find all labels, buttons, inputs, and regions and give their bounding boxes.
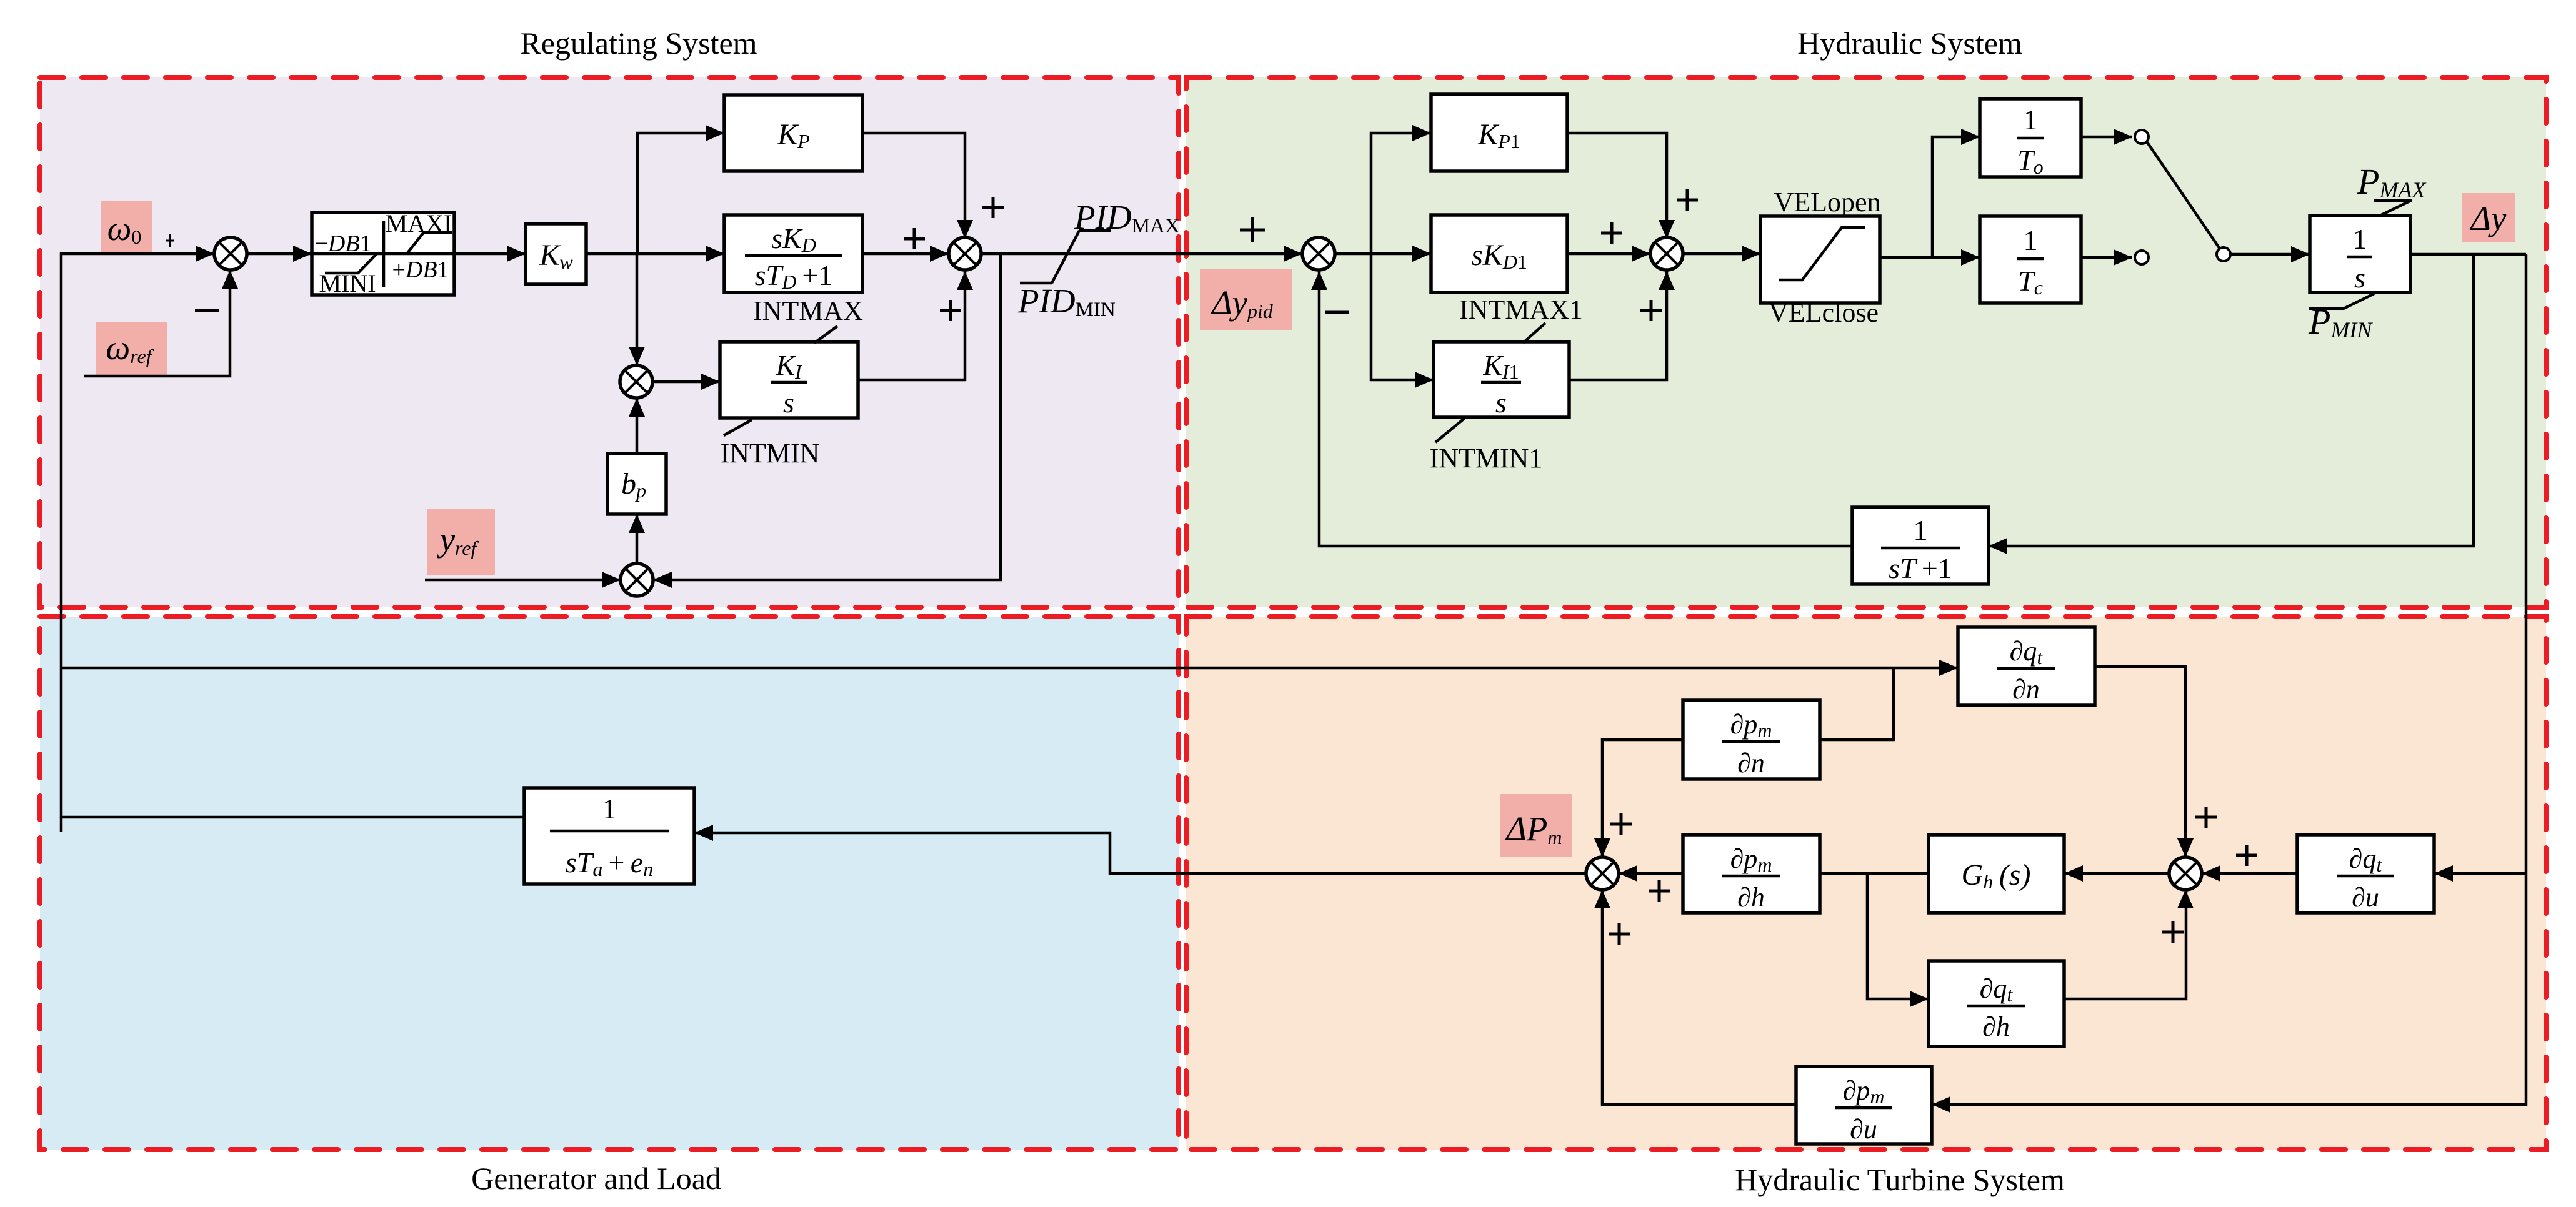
wire dy down to dpm/du <box>1932 873 2526 1113</box>
svg-text:INTMIN1: INTMIN1 <box>1430 443 1543 474</box>
summing junction S8 (dPm) <box>1586 857 1619 890</box>
svg-text:1: 1 <box>1914 514 1928 546</box>
caption Regulating System <box>520 26 757 61</box>
region Regulating System (top-left quadrant) <box>40 77 1179 607</box>
summing junction S6 <box>1650 237 1683 270</box>
block dqt/du <box>2297 835 2434 913</box>
sign + at S4 top <box>982 197 1004 218</box>
node omega_ref label <box>96 322 167 376</box>
svg-text:1: 1 <box>602 793 617 825</box>
wire S1 to deadband block <box>247 246 312 262</box>
wire Gh(s) output to dpm/dh <box>1820 872 1929 875</box>
caption Generator and Load <box>471 1161 721 1196</box>
block KI1/s <box>1434 342 1569 419</box>
sign - at S5 bottom input <box>1325 311 1349 314</box>
sign - at S1 bottom input <box>195 309 219 312</box>
sign + at S6 top <box>1677 189 1698 211</box>
label INTMAX with callout <box>753 296 863 343</box>
region Hydraulic System (top-right quadrant) <box>1186 77 2546 607</box>
switch arm <box>2147 142 2220 249</box>
sign + at S6 left <box>1601 222 1622 244</box>
svg-text:+DB1: +DB1 <box>392 257 449 283</box>
wire S4 output to S5 <box>981 246 1302 262</box>
wire deadband to Kw <box>454 246 526 262</box>
block velocity saturation <box>1760 216 1880 303</box>
wire KI to S4 bottom <box>858 271 973 380</box>
wire 1/Tc to switch contact <box>2081 249 2132 266</box>
wire dpm/dh to S8 right <box>1619 865 1683 882</box>
sign + at S8 bottom <box>1609 923 1630 945</box>
sign + at S5 left input <box>1240 217 1265 242</box>
sign + at S8 right <box>1649 880 1670 902</box>
sign + at S4 left <box>904 228 925 249</box>
svg-text:1: 1 <box>2024 104 2038 136</box>
node dPm label <box>1500 794 1572 857</box>
svg-text:Gh (s): Gh (s) <box>1962 858 2031 893</box>
wire S3 to bp <box>629 514 645 564</box>
wire dpm/du to S8 bottom <box>1594 890 1796 1105</box>
wire dy down into turbine quadrant <box>2525 254 2528 873</box>
node dy label <box>2462 193 2515 242</box>
svg-text:INTMAX1: INTMAX1 <box>1459 294 1583 325</box>
switch common circle <box>2217 247 2230 261</box>
wire S6 to saturation block <box>1683 246 1760 262</box>
svg-text:sTa + en: sTa + en <box>566 847 653 880</box>
label INTMIN with callout <box>721 420 820 469</box>
wire dqt/du to S7 right <box>2202 865 2297 882</box>
sign + at S7 bottom <box>2162 921 2184 943</box>
wire branch down to KI1 <box>1371 254 1434 388</box>
block 1/(sTa+en) generator <box>524 788 694 884</box>
block dpm/dn <box>1683 700 1820 779</box>
wire dpm/dn to S8 top <box>1594 740 1683 857</box>
block 1/s integrator <box>2310 216 2410 294</box>
wire feedback branch down to 1/(sT+1) <box>1989 254 2474 554</box>
wire KI1 to S6 bottom <box>1569 271 1675 380</box>
caption Hydraulic System <box>1797 26 2022 61</box>
summing junction S5 <box>1302 237 1335 270</box>
block Kw <box>526 224 586 284</box>
sign + at S8 top <box>1610 813 1632 835</box>
wire speed n long line to dqt/dn <box>61 660 1958 676</box>
wire KP1 to S6 top <box>1567 133 1675 239</box>
svg-text:MINI: MINI <box>319 269 376 297</box>
svg-text:s: s <box>783 387 794 419</box>
wire branch down into dpm/dn input <box>1820 668 1894 740</box>
svg-text:Hydraulic System: Hydraulic System <box>1797 26 2022 61</box>
block KP1 <box>1431 94 1567 171</box>
sign + at S4 bottom <box>940 300 961 321</box>
wire branch up to KP1 <box>1371 125 1431 254</box>
block KI/s <box>720 342 858 419</box>
label P_MAX with callout <box>2357 161 2427 216</box>
label INTMAX1 with callout <box>1459 294 1583 343</box>
label VELclose <box>1769 297 1879 328</box>
summing junction S3 <box>621 564 653 596</box>
wire 1/s output to right edge <box>2410 253 2526 256</box>
block dpm/du <box>1796 1066 1932 1145</box>
svg-text:∂u: ∂u <box>2352 882 2379 913</box>
switch contact circle lower <box>2135 251 2149 264</box>
wire 1/To to switch contact <box>2081 129 2132 145</box>
wire generator output feedback (left column x=98) into S1 <box>61 246 524 832</box>
switch contact circle upper <box>2135 130 2149 144</box>
summing junction S2 <box>620 365 652 398</box>
svg-text:INTMIN: INTMIN <box>721 438 820 469</box>
svg-text:VELopen: VELopen <box>1774 187 1880 217</box>
svg-text:MAXI: MAXI <box>386 209 452 237</box>
block sKD1 <box>1431 215 1567 292</box>
svg-text:∂h: ∂h <box>1982 1011 2010 1042</box>
block 1/(sT+1) <box>1852 507 1989 584</box>
wire dqt/dh to S7 bottom <box>2064 890 2194 999</box>
wire S2 to KI/s <box>652 374 720 390</box>
svg-text:∂h: ∂h <box>1737 882 1765 913</box>
svg-text:VELclose: VELclose <box>1769 297 1879 328</box>
block bp <box>607 454 666 514</box>
svg-text:Δy: Δy <box>2470 199 2507 237</box>
block 1/Tc <box>1980 216 2081 303</box>
svg-text:INTMAX: INTMAX <box>753 296 863 326</box>
node omega0 label <box>101 201 152 254</box>
wire 1/(sT+1) to S5 bottom <box>1311 271 1852 546</box>
svg-text:Regulating System: Regulating System <box>520 26 757 61</box>
summing junction S4 <box>949 237 981 270</box>
block deadband (-DB1/+DB1, MAXI/MINI) <box>312 209 454 297</box>
sign + at S1 left input <box>166 234 174 247</box>
svg-text:Generator and Load: Generator and Load <box>471 1161 721 1196</box>
wire KP to S4 top <box>862 133 973 239</box>
svg-text:1: 1 <box>2353 223 2367 255</box>
wire branch down to dqt/dh input <box>1867 873 1929 1007</box>
wire dy to dqt/du <box>2434 865 2526 882</box>
caption Hydraulic Turbine System <box>1735 1162 2065 1197</box>
label INTMIN1 with callout <box>1430 419 1543 474</box>
sign + at S7 top <box>2195 807 2217 828</box>
wire dqt/dn to S7 top <box>2095 667 2194 857</box>
block sKD/(sTD+1) <box>724 215 862 293</box>
block KP <box>724 95 862 171</box>
wire Kw output to sKD with branch node <box>586 246 724 262</box>
block dpm/dh <box>1683 835 1820 913</box>
wire branch up to 1/To <box>1932 129 1980 257</box>
wire branch down to S2 <box>629 254 645 365</box>
node dy_pid label <box>1200 269 1292 330</box>
block dqt/dn <box>1958 627 2095 705</box>
svg-text:Hydraulic Turbine System: Hydraulic Turbine System <box>1735 1162 2065 1197</box>
label VELopen <box>1774 187 1880 217</box>
wire bp to S2 <box>629 398 645 454</box>
wire PID feedback down to S3 <box>653 254 1001 588</box>
block dqt/dh <box>1929 961 2064 1046</box>
svg-text:∂u: ∂u <box>1850 1114 1877 1145</box>
svg-text:s: s <box>1495 387 1507 419</box>
svg-text:∂n: ∂n <box>1737 748 1765 778</box>
svg-text:−DB1: −DB1 <box>314 231 371 257</box>
block 1/To <box>1980 99 2081 178</box>
svg-text:∂n: ∂n <box>2012 674 2040 705</box>
sign + at S6 bottom <box>1640 300 1662 321</box>
wire switch to 1/s <box>2231 246 2310 262</box>
wire S5 output to sKD1 with branch <box>1335 246 1431 262</box>
node yref label <box>427 509 495 575</box>
block Gh(s) <box>1929 835 2064 913</box>
wire yref into S3 <box>425 572 621 588</box>
wire branch up to KP <box>637 125 724 254</box>
wire sKD to S4 left <box>862 246 949 262</box>
region Hydraulic Turbine System (bottom-right quadrant) <box>1186 617 2546 1150</box>
wire dPm into generator block <box>694 825 1586 873</box>
wire S7 to Gh(s) <box>2064 865 2169 882</box>
wire S8 output to generator (left) <box>1581 872 1586 875</box>
summing junction S1 (speed error) <box>214 237 247 270</box>
label P_MIN with callout <box>2308 294 2374 342</box>
wire saturation output with branch to 1/Tc <box>1880 249 1980 266</box>
svg-text:s: s <box>2354 262 2365 294</box>
label PID_MAX / PID_MIN saturation <box>1017 198 1180 321</box>
wire sKD1 to S6 left <box>1567 246 1650 262</box>
region Generator and Load (bottom-left quadrant) <box>40 617 1179 1150</box>
summing junction S7 <box>2169 857 2202 890</box>
svg-text:sT +1: sT +1 <box>1889 552 1952 584</box>
wire omega_ref into S1 bottom <box>84 270 238 376</box>
sign + at S7 right input <box>2236 845 2257 866</box>
svg-text:1: 1 <box>2024 224 2038 256</box>
